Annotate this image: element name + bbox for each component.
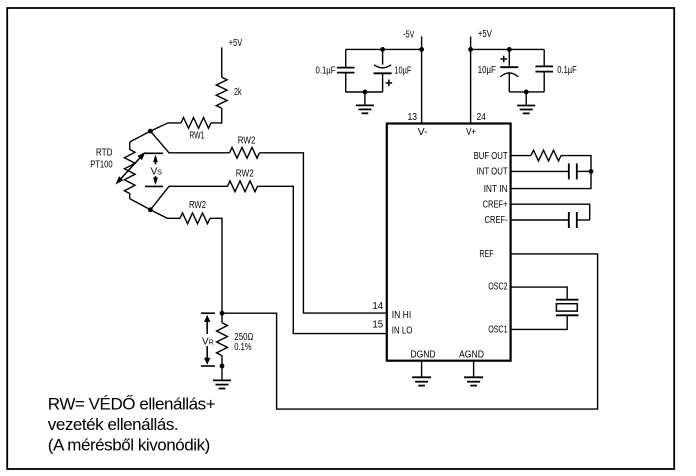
svg-text:(A mérésből kivonódik): (A mérésből kivonódik) (48, 435, 210, 454)
svg-text:INT IN: INT IN (484, 184, 508, 195)
svg-text:vezeték ellenállás.: vezeték ellenállás. (48, 415, 178, 434)
svg-text:BUF OUT: BUF OUT (474, 151, 508, 162)
svg-text:14: 14 (372, 301, 383, 312)
svg-text:CREF+: CREF+ (483, 199, 508, 210)
svg-text:V+: V+ (466, 127, 476, 138)
svg-text:REF: REF (479, 249, 493, 260)
svg-text:10µF: 10µF (394, 65, 411, 76)
svg-text:0.1µF: 0.1µF (557, 65, 577, 76)
svg-text:15: 15 (372, 320, 383, 331)
svg-text:0.1%: 0.1% (234, 342, 251, 353)
svg-text:-5V: -5V (403, 29, 414, 40)
svg-text:AGND: AGND (459, 350, 484, 361)
svg-text:24: 24 (477, 112, 487, 123)
svg-text:2k: 2k (234, 87, 242, 98)
svg-text:10µF: 10µF (478, 65, 496, 76)
svg-text:+5V: +5V (478, 29, 492, 40)
svg-text:CREF-: CREF- (485, 215, 508, 226)
svg-text:V-: V- (418, 127, 428, 138)
svg-text:OSC2: OSC2 (488, 282, 508, 293)
svg-text:IN HI: IN HI (392, 310, 411, 321)
svg-text:DGND: DGND (411, 350, 436, 361)
svg-text:+5V: +5V (229, 38, 243, 49)
svg-text:0.1µF: 0.1µF (316, 66, 336, 77)
svg-text:PT100: PT100 (90, 160, 113, 171)
svg-text:RW= VÉDŐ ellenállás+: RW= VÉDŐ ellenállás+ (48, 395, 216, 414)
svg-text:RW2: RW2 (189, 200, 206, 211)
svg-text:13: 13 (408, 112, 418, 123)
svg-text:IN LO: IN LO (392, 325, 413, 336)
svg-text:INT OUT: INT OUT (477, 167, 508, 178)
svg-text:RW2: RW2 (238, 135, 256, 146)
svg-text:RTD: RTD (96, 148, 113, 159)
svg-text:RW2: RW2 (236, 168, 254, 179)
svg-text:RW1: RW1 (189, 130, 204, 141)
svg-text:OSC1: OSC1 (488, 325, 508, 336)
